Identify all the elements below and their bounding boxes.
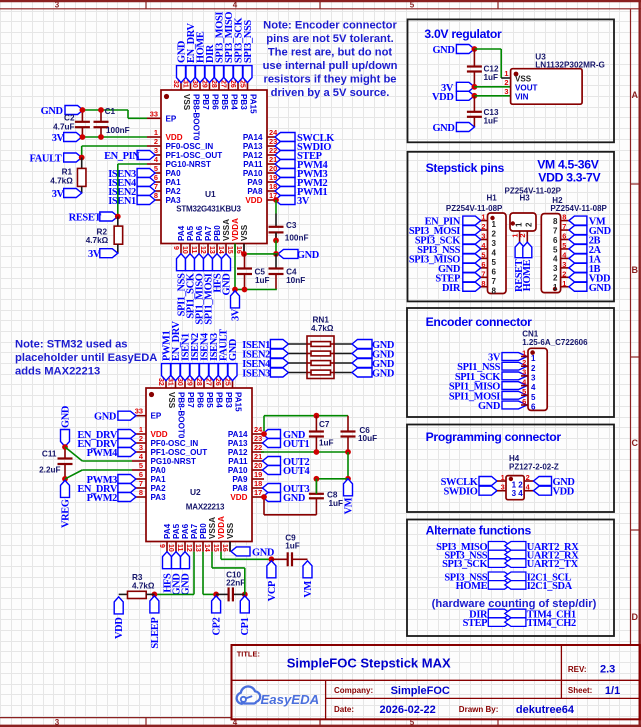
svg-text:PB6: PB6 bbox=[196, 392, 205, 408]
svg-text:(hardware counting of step/dir: (hardware counting of step/dir) bbox=[432, 598, 597, 610]
svg-text:3: 3 bbox=[55, 1, 60, 10]
svg-text:3: 3 bbox=[562, 260, 566, 269]
svg-text:13: 13 bbox=[194, 544, 201, 552]
svg-text:1: 1 bbox=[515, 222, 524, 227]
svg-text:PA14: PA14 bbox=[228, 430, 248, 439]
svg-text:1uF: 1uF bbox=[484, 117, 499, 126]
svg-text:UART2_TX: UART2_TX bbox=[527, 559, 579, 570]
svg-text:PB5: PB5 bbox=[220, 94, 229, 110]
svg-text:14: 14 bbox=[203, 544, 210, 552]
svg-text:I2C1_SDA: I2C1_SDA bbox=[527, 581, 573, 592]
svg-text:VREG: VREG bbox=[60, 499, 71, 528]
svg-text:4.7kΩ: 4.7kΩ bbox=[132, 582, 155, 591]
svg-text:2.3: 2.3 bbox=[600, 664, 615, 676]
svg-text:REV:: REV: bbox=[568, 665, 587, 674]
svg-text:1/1: 1/1 bbox=[605, 685, 620, 697]
svg-text:PF1-OSC_OUT: PF1-OSC_OUT bbox=[151, 448, 208, 457]
svg-text:PA7: PA7 bbox=[190, 523, 199, 539]
svg-text:3: 3 bbox=[492, 239, 497, 248]
svg-text:5: 5 bbox=[553, 245, 558, 254]
svg-text:12: 12 bbox=[185, 544, 192, 552]
svg-text:PG10-NRST: PG10-NRST bbox=[166, 160, 211, 169]
svg-text:5: 5 bbox=[481, 250, 485, 259]
svg-text:H3: H3 bbox=[520, 194, 531, 203]
svg-text:19: 19 bbox=[254, 470, 262, 479]
svg-text:2: 2 bbox=[522, 358, 526, 367]
svg-text:PA12: PA12 bbox=[228, 448, 248, 457]
svg-text:VSS: VSS bbox=[226, 522, 235, 539]
svg-text:PB7: PB7 bbox=[186, 392, 195, 408]
svg-text:VOUT: VOUT bbox=[515, 84, 538, 93]
svg-text:VDD: VDD bbox=[151, 430, 168, 439]
svg-text:2: 2 bbox=[531, 364, 536, 373]
svg-text:PB5: PB5 bbox=[205, 392, 214, 408]
svg-text:4: 4 bbox=[492, 248, 497, 257]
svg-text:PZ254V-11-02P: PZ254V-11-02P bbox=[505, 187, 562, 196]
svg-text:PA4: PA4 bbox=[163, 523, 172, 539]
svg-text:4.7kΩ: 4.7kΩ bbox=[86, 236, 109, 245]
svg-text:PZ254V-11-08P: PZ254V-11-08P bbox=[446, 204, 503, 213]
svg-text:VDD: VDD bbox=[553, 487, 574, 498]
svg-text:GND: GND bbox=[283, 493, 305, 504]
svg-text:15: 15 bbox=[212, 544, 219, 552]
svg-text:Drawn By:: Drawn By: bbox=[459, 705, 499, 714]
svg-text:PB6: PB6 bbox=[211, 94, 220, 110]
svg-text:OUT4: OUT4 bbox=[283, 466, 309, 477]
svg-text:dekutree64: dekutree64 bbox=[516, 704, 575, 716]
svg-text:7: 7 bbox=[139, 479, 143, 488]
svg-text:Sheet:: Sheet: bbox=[568, 686, 592, 695]
svg-text:4: 4 bbox=[233, 1, 238, 10]
svg-text:13: 13 bbox=[208, 246, 215, 254]
svg-text:PB8-BOOT0: PB8-BOOT0 bbox=[177, 392, 186, 439]
svg-text:CP1: CP1 bbox=[240, 617, 251, 635]
svg-text:PB7: PB7 bbox=[201, 94, 210, 110]
svg-text:GND: GND bbox=[60, 406, 71, 428]
svg-text:SPI3_SCK: SPI3_SCK bbox=[442, 559, 487, 570]
svg-text:VDDA: VDDA bbox=[231, 218, 240, 241]
svg-text:GND: GND bbox=[180, 574, 191, 596]
svg-text:1: 1 bbox=[154, 128, 158, 137]
svg-text:PA2: PA2 bbox=[151, 484, 167, 493]
svg-text:PA5: PA5 bbox=[186, 225, 195, 241]
svg-text:2: 2 bbox=[562, 269, 566, 278]
svg-text:PA0: PA0 bbox=[166, 169, 182, 178]
svg-text:HOME: HOME bbox=[522, 259, 533, 291]
svg-text:6: 6 bbox=[553, 236, 558, 245]
svg-text:ISEN1: ISEN1 bbox=[108, 196, 136, 207]
svg-text:VDD 3.3-7V: VDD 3.3-7V bbox=[538, 171, 601, 185]
svg-text:100nF: 100nF bbox=[285, 234, 309, 243]
svg-text:2026-02-22: 2026-02-22 bbox=[380, 704, 436, 716]
svg-text:CP2: CP2 bbox=[212, 617, 223, 635]
svg-text:3V: 3V bbox=[230, 308, 241, 321]
svg-text:H1: H1 bbox=[487, 194, 498, 203]
svg-text:2: 2 bbox=[518, 234, 527, 238]
svg-text:14: 14 bbox=[217, 246, 224, 254]
svg-text:PG10-NRST: PG10-NRST bbox=[151, 457, 196, 466]
svg-text:Note: STM32 used as: Note: STM32 used as bbox=[15, 339, 128, 351]
svg-text:3: 3 bbox=[139, 443, 143, 452]
svg-text:PF0-OSC_IN: PF0-OSC_IN bbox=[151, 439, 199, 448]
svg-text:FAULT: FAULT bbox=[30, 154, 62, 165]
svg-text:HOME: HOME bbox=[456, 581, 488, 592]
svg-text:GND: GND bbox=[94, 412, 116, 423]
svg-text:C2: C2 bbox=[64, 114, 75, 123]
svg-text:PA0: PA0 bbox=[151, 466, 167, 475]
svg-text:2: 2 bbox=[504, 78, 508, 87]
svg-text:PA13: PA13 bbox=[228, 439, 248, 448]
svg-text:8: 8 bbox=[553, 217, 558, 226]
svg-text:1.25-6A_C722606: 1.25-6A_C722606 bbox=[522, 338, 588, 347]
svg-text:A: A bbox=[632, 90, 639, 100]
svg-text:6: 6 bbox=[481, 260, 485, 269]
svg-text:Programming connector: Programming connector bbox=[426, 430, 562, 444]
svg-text:16: 16 bbox=[221, 544, 228, 552]
svg-text:7: 7 bbox=[481, 269, 485, 278]
svg-text:2: 2 bbox=[525, 222, 534, 227]
svg-text:OUT1: OUT1 bbox=[283, 439, 309, 450]
svg-text:PA11: PA11 bbox=[228, 457, 248, 466]
svg-text:3: 3 bbox=[504, 87, 508, 96]
svg-text:SimpleFOC Stepstick MAX: SimpleFOC Stepstick MAX bbox=[287, 656, 451, 671]
svg-text:GND: GND bbox=[41, 106, 63, 117]
svg-text:VDD: VDD bbox=[245, 196, 262, 205]
svg-text:1: 1 bbox=[504, 69, 508, 78]
svg-text:VSS: VSS bbox=[182, 94, 191, 111]
svg-text:10uF: 10uF bbox=[358, 434, 377, 443]
svg-text:PB0: PB0 bbox=[199, 523, 208, 539]
svg-text:SimpleFOC: SimpleFOC bbox=[391, 685, 450, 697]
svg-text:VDD: VDD bbox=[166, 133, 183, 142]
svg-text:5: 5 bbox=[139, 461, 143, 470]
svg-text:C1: C1 bbox=[105, 107, 116, 116]
svg-text:5: 5 bbox=[492, 258, 497, 267]
svg-text:2: 2 bbox=[154, 137, 158, 146]
svg-text:VDD: VDD bbox=[432, 92, 453, 103]
svg-text:VM 4.5-36V: VM 4.5-36V bbox=[537, 158, 600, 172]
svg-text:VDD: VDD bbox=[230, 493, 247, 502]
svg-text:12: 12 bbox=[199, 246, 206, 254]
svg-text:resistors if they might be: resistors if they might be bbox=[263, 73, 396, 85]
svg-text:adds MAX22213: adds MAX22213 bbox=[15, 366, 100, 378]
svg-text:Note: Encoder connector: Note: Encoder connector bbox=[263, 20, 397, 32]
svg-text:GND: GND bbox=[478, 401, 500, 412]
svg-text:32: 32 bbox=[172, 80, 179, 88]
svg-text:PA6: PA6 bbox=[181, 523, 190, 539]
svg-text:33: 33 bbox=[135, 407, 143, 416]
svg-text:1uF: 1uF bbox=[329, 499, 344, 508]
svg-text:4.7uF: 4.7uF bbox=[53, 123, 74, 132]
svg-text:VDD: VDD bbox=[114, 618, 125, 639]
svg-text:1uF: 1uF bbox=[484, 73, 499, 82]
svg-text:PA10: PA10 bbox=[228, 466, 248, 475]
svg-text:C3: C3 bbox=[286, 221, 297, 230]
svg-text:1: 1 bbox=[501, 473, 505, 482]
svg-text:SWDIO: SWDIO bbox=[443, 487, 477, 498]
svg-text:pins are not 5V tolerant.: pins are not 5V tolerant. bbox=[266, 33, 393, 45]
svg-text:VM: VM bbox=[303, 580, 314, 597]
svg-text:TITLE:: TITLE: bbox=[237, 650, 260, 659]
svg-text:C: C bbox=[632, 438, 639, 448]
svg-text:1: 1 bbox=[522, 348, 526, 357]
svg-text:PA13: PA13 bbox=[243, 142, 263, 151]
svg-text:8: 8 bbox=[562, 213, 566, 222]
svg-text:PA2: PA2 bbox=[166, 187, 182, 196]
svg-text:PA7: PA7 bbox=[204, 225, 213, 241]
svg-text:GND: GND bbox=[432, 123, 454, 134]
svg-text:3V: 3V bbox=[297, 196, 310, 207]
svg-text:3: 3 bbox=[522, 368, 526, 377]
svg-text:PA14: PA14 bbox=[243, 133, 263, 142]
svg-text:STM32G431KBU3: STM32G431KBU3 bbox=[176, 205, 241, 214]
svg-text:Alternate functions: Alternate functions bbox=[426, 524, 532, 538]
svg-text:6: 6 bbox=[522, 397, 526, 406]
svg-text:DIR: DIR bbox=[442, 283, 461, 294]
svg-text:GND: GND bbox=[589, 283, 611, 294]
svg-text:1: 1 bbox=[531, 354, 536, 363]
svg-text:PA15: PA15 bbox=[234, 392, 243, 412]
svg-text:8: 8 bbox=[139, 488, 143, 497]
svg-text:1uF: 1uF bbox=[255, 276, 270, 285]
svg-text:22: 22 bbox=[254, 443, 262, 452]
svg-text:11: 11 bbox=[176, 544, 183, 552]
svg-text:23: 23 bbox=[254, 434, 262, 443]
svg-text:Company:: Company: bbox=[334, 686, 373, 695]
svg-text:3.0V regulator: 3.0V regulator bbox=[424, 27, 502, 41]
svg-text:1: 1 bbox=[481, 213, 485, 222]
svg-text:5: 5 bbox=[410, 1, 415, 10]
svg-text:U2: U2 bbox=[190, 487, 201, 497]
svg-text:GND: GND bbox=[432, 45, 454, 56]
svg-text:TIM4_CH2: TIM4_CH2 bbox=[527, 618, 576, 629]
svg-text:placeholder until EasyEDA: placeholder until EasyEDA bbox=[15, 352, 157, 364]
svg-text:VSS: VSS bbox=[167, 392, 176, 409]
svg-text:3V: 3V bbox=[88, 249, 101, 260]
svg-text:RESET: RESET bbox=[69, 213, 102, 224]
svg-text:PA3: PA3 bbox=[151, 493, 167, 502]
svg-text:GND: GND bbox=[252, 547, 274, 558]
svg-text:2: 2 bbox=[481, 222, 485, 231]
svg-text:1: 1 bbox=[139, 425, 143, 434]
svg-text:PA9: PA9 bbox=[232, 475, 248, 484]
svg-text:VCP: VCP bbox=[267, 580, 278, 601]
svg-text:4: 4 bbox=[531, 383, 536, 392]
svg-text:2: 2 bbox=[492, 230, 497, 239]
svg-text:PA1: PA1 bbox=[166, 178, 182, 187]
svg-text:VSSA: VSSA bbox=[208, 517, 217, 539]
svg-text:22nF: 22nF bbox=[226, 579, 245, 588]
svg-text:2: 2 bbox=[139, 434, 143, 443]
svg-text:EP: EP bbox=[151, 412, 162, 421]
svg-text:GND: GND bbox=[372, 369, 394, 380]
svg-text:PB8-BOOT0: PB8-BOOT0 bbox=[192, 94, 201, 141]
svg-text:7: 7 bbox=[492, 277, 497, 286]
svg-text:21: 21 bbox=[254, 452, 262, 461]
svg-text:EasyEDA: EasyEDA bbox=[261, 692, 320, 707]
svg-text:PA9: PA9 bbox=[247, 178, 263, 187]
svg-text:17: 17 bbox=[254, 488, 262, 497]
svg-text:VSSA: VSSA bbox=[222, 219, 231, 241]
svg-text:PA11: PA11 bbox=[243, 160, 263, 169]
svg-text:1: 1 bbox=[553, 283, 558, 292]
svg-text:4.7kΩ: 4.7kΩ bbox=[50, 177, 73, 186]
svg-text:B: B bbox=[632, 265, 639, 275]
svg-text:33: 33 bbox=[150, 109, 158, 118]
svg-text:2: 2 bbox=[553, 274, 558, 283]
svg-text:Encoder connector: Encoder connector bbox=[426, 315, 533, 329]
svg-text:PB3: PB3 bbox=[224, 392, 233, 408]
svg-text:8: 8 bbox=[492, 286, 497, 295]
svg-text:C11: C11 bbox=[42, 450, 57, 459]
svg-text:3: 3 bbox=[501, 483, 505, 492]
svg-text:1: 1 bbox=[492, 220, 497, 229]
svg-text:10: 10 bbox=[167, 544, 174, 552]
svg-text:PB0: PB0 bbox=[213, 225, 222, 241]
svg-text:5: 5 bbox=[522, 387, 526, 396]
svg-text:5: 5 bbox=[531, 393, 536, 402]
svg-text:10: 10 bbox=[181, 246, 188, 254]
svg-text:8: 8 bbox=[481, 279, 485, 288]
svg-text:2.2uF: 2.2uF bbox=[39, 466, 60, 475]
svg-text:1: 1 bbox=[562, 279, 566, 288]
svg-text:use internal pull up/down: use internal pull up/down bbox=[263, 60, 398, 72]
svg-text:5: 5 bbox=[562, 241, 566, 250]
svg-text:PB3: PB3 bbox=[239, 94, 248, 110]
svg-text:VDDA: VDDA bbox=[217, 516, 226, 539]
svg-text:EP: EP bbox=[166, 114, 177, 123]
svg-text:9: 9 bbox=[172, 246, 179, 250]
svg-text:ISEN3: ISEN3 bbox=[242, 369, 270, 380]
svg-text:U1: U1 bbox=[205, 189, 216, 199]
svg-text:32: 32 bbox=[157, 378, 164, 386]
svg-text:3V: 3V bbox=[52, 189, 65, 200]
svg-text:100nF: 100nF bbox=[106, 126, 130, 135]
svg-text:PB4: PB4 bbox=[215, 392, 224, 408]
svg-text:GND: GND bbox=[221, 274, 232, 296]
svg-text:3: 3 bbox=[553, 264, 558, 273]
svg-text:GND: GND bbox=[228, 339, 239, 361]
svg-text:The rest are, but do not: The rest are, but do not bbox=[268, 46, 393, 58]
svg-text:Stepstick pins: Stepstick pins bbox=[426, 161, 505, 175]
svg-text:PZ127-2-02-Z: PZ127-2-02-Z bbox=[509, 463, 559, 472]
svg-text:PA4: PA4 bbox=[177, 225, 186, 241]
svg-text:20: 20 bbox=[254, 461, 262, 470]
svg-text:15: 15 bbox=[226, 246, 233, 254]
svg-text:6: 6 bbox=[139, 470, 143, 479]
svg-text:7: 7 bbox=[553, 226, 558, 235]
svg-text:6: 6 bbox=[562, 232, 566, 241]
svg-text:2: 2 bbox=[526, 473, 530, 482]
svg-text:6: 6 bbox=[492, 267, 497, 276]
svg-text:3 4: 3 4 bbox=[512, 489, 524, 498]
svg-text:3: 3 bbox=[55, 718, 60, 727]
svg-text:STEP: STEP bbox=[463, 618, 489, 629]
svg-text:10nF: 10nF bbox=[286, 276, 305, 285]
svg-text:PF1-OSC_OUT: PF1-OSC_OUT bbox=[166, 151, 223, 160]
svg-text:PA8: PA8 bbox=[232, 484, 248, 493]
svg-text:EN_PIN: EN_PIN bbox=[104, 151, 140, 162]
svg-text:3: 3 bbox=[481, 232, 485, 241]
svg-text:C7: C7 bbox=[319, 420, 330, 429]
svg-text:driven by a 5V source.: driven by a 5V source. bbox=[271, 87, 390, 99]
svg-text:1uF: 1uF bbox=[285, 542, 300, 551]
svg-text:7: 7 bbox=[562, 222, 566, 231]
svg-text:PA8: PA8 bbox=[247, 187, 263, 196]
svg-text:SLEEP: SLEEP bbox=[150, 617, 161, 649]
svg-text:PA1: PA1 bbox=[151, 475, 167, 484]
svg-text:VSS: VSS bbox=[240, 224, 249, 241]
svg-text:GND: GND bbox=[297, 250, 319, 261]
svg-text:18: 18 bbox=[254, 479, 262, 488]
svg-text:PA15: PA15 bbox=[249, 94, 258, 114]
svg-text:R1: R1 bbox=[62, 167, 73, 176]
svg-text:3: 3 bbox=[531, 374, 536, 383]
svg-text:PA6: PA6 bbox=[195, 225, 204, 241]
svg-text:PA12: PA12 bbox=[243, 151, 263, 160]
svg-text:11: 11 bbox=[190, 246, 197, 254]
svg-text:PB4: PB4 bbox=[230, 94, 239, 110]
svg-text:VIN: VIN bbox=[515, 93, 529, 102]
svg-text:D: D bbox=[632, 612, 639, 622]
svg-text:VSS: VSS bbox=[515, 75, 532, 84]
svg-text:LN1132P302MR-G: LN1132P302MR-G bbox=[535, 61, 605, 70]
svg-text:PA10: PA10 bbox=[243, 169, 263, 178]
svg-text:SPI3_NSS: SPI3_NSS bbox=[243, 20, 254, 63]
svg-text:PF0-OSC_IN: PF0-OSC_IN bbox=[166, 142, 214, 151]
svg-text:9: 9 bbox=[158, 544, 165, 548]
svg-text:16: 16 bbox=[235, 246, 242, 254]
svg-text:PWM2: PWM2 bbox=[87, 493, 117, 504]
svg-text:VM: VM bbox=[343, 497, 354, 514]
svg-text:4: 4 bbox=[553, 255, 558, 264]
svg-text:PWM4: PWM4 bbox=[87, 448, 117, 459]
svg-text:PZ254V-11-08P: PZ254V-11-08P bbox=[550, 204, 607, 213]
svg-text:6: 6 bbox=[531, 403, 536, 412]
svg-text:MAX22213: MAX22213 bbox=[186, 503, 225, 512]
svg-text:3V: 3V bbox=[52, 133, 65, 144]
svg-text:1uF: 1uF bbox=[319, 439, 334, 448]
svg-text:Date:: Date: bbox=[334, 705, 354, 714]
svg-text:4.7kΩ: 4.7kΩ bbox=[311, 324, 334, 333]
svg-text:PA5: PA5 bbox=[172, 523, 181, 539]
